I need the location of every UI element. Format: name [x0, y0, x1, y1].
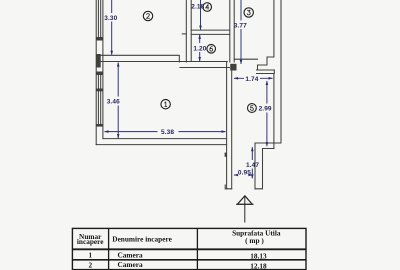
wall divider rooms 4/6 lower line — [191, 33, 230, 35]
arrowhead 2.18 down — [199, 26, 202, 31]
svg-text:Denumire incapere: Denumire incapere — [112, 235, 172, 244]
wall room 1 right inner line — [226, 62, 228, 189]
svg-text:1.47: 1.47 — [246, 162, 259, 169]
arrowhead 3.46 down — [117, 134, 120, 139]
arrowhead 2.99 up — [266, 81, 269, 86]
dimension 2.99 line — [266, 81, 268, 146]
wall pier below room 3 — [230, 64, 236, 71]
dimension 3.77 line — [240, 0, 242, 64]
wall rooms 4/6 right outer line — [233, 0, 235, 62]
wall between room 2 and room 1 lower line — [101, 61, 228, 63]
wall room 1 bottom inner line — [103, 138, 227, 140]
arrowhead 3.46 up — [117, 62, 120, 67]
dimension 2.18 line — [200, 0, 202, 30]
wall between room 2 and room 1 upper line — [101, 55, 180, 62]
wall pier above small window — [96, 72, 103, 76]
svg-text:1: 1 — [88, 251, 92, 260]
room number 5 — [250, 106, 253, 111]
room number 1 — [165, 102, 167, 107]
wall room 5 ledge upper line — [257, 69, 275, 71]
north arrow base flares — [236, 203, 253, 205]
wall pier below lower window — [96, 124, 103, 127]
dimension 1.20 line — [199, 35, 201, 61]
svg-text:3.46: 3.46 — [107, 99, 120, 106]
table header separator — [72, 248, 306, 250]
wall entrance right inner line — [263, 149, 274, 185]
svg-text:12.18: 12.18 — [250, 261, 267, 270]
wall pier below upper window — [96, 37, 103, 41]
dimension 3.30 line — [111, 0, 113, 55]
svg-text:18.13: 18.13 — [250, 251, 267, 260]
wire left outer wall line — [95, 0, 97, 145]
room number 3 — [247, 10, 250, 15]
wall room 5 ledge lower line — [257, 70, 275, 74]
window left wall upper (room 2) hatch — [98, 0, 100, 37]
arrowhead 3.30 down — [110, 51, 113, 56]
wall room 3 / room 5 step — [258, 0, 274, 70]
arrowhead 1.74 right — [269, 77, 274, 80]
svg-text:Camera: Camera — [118, 250, 143, 259]
arrowhead 1.20 down — [198, 57, 201, 62]
arrowhead 5.38 left — [104, 130, 109, 133]
wall right outer line — [255, 0, 281, 189]
window left wall lower (room 1) hatch — [98, 91, 100, 124]
dimension 3.46 line — [117, 63, 119, 139]
dimension 1.74 line — [234, 77, 273, 79]
table row separator — [72, 259, 306, 261]
svg-text:0.95: 0.95 — [238, 170, 251, 177]
svg-text:2: 2 — [88, 260, 92, 269]
wall room 3 bottom line — [234, 58, 257, 60]
wall hall floor outer line — [180, 67, 230, 69]
table column separator 2 — [196, 228, 198, 269]
arrowhead 1.47 down — [251, 174, 254, 179]
wall entrance left end cap — [225, 185, 232, 189]
arrowhead 5.38 right — [222, 130, 227, 133]
svg-text:( mp ): ( mp ) — [245, 236, 264, 245]
arrowhead 1.47 up — [251, 147, 254, 152]
dimension 1.47 line — [251, 147, 253, 178]
arrowhead 1.20 up — [198, 34, 201, 39]
room label circle 3 — [244, 8, 253, 17]
wall pier on entrance left wall — [225, 153, 227, 157]
wire left inner wall line — [102, 0, 104, 139]
table outer border — [72, 228, 306, 269]
wall divider rooms 4/6 upper line — [191, 29, 230, 31]
wall room 5 right inner line — [273, 74, 275, 149]
arrowhead 0.95 right — [248, 174, 253, 177]
wall rooms 4/6 right inner line — [229, 0, 231, 62]
dimensions — [105, 0, 273, 178]
wall divider left tick — [182, 33, 186, 35]
north arrow stem — [244, 197, 246, 223]
room number 4 — [206, 5, 209, 10]
dimension 0.95 line — [234, 174, 253, 176]
wall pier between windows — [96, 89, 103, 92]
svg-text:Camera: Camera — [118, 260, 143, 269]
table — [72, 228, 306, 269]
room label circle 5 — [248, 104, 257, 113]
room label circle 2 — [143, 11, 152, 20]
room label circle 4 — [203, 3, 212, 12]
room number 2 — [147, 14, 150, 19]
north arrow — [236, 196, 253, 223]
svg-text:5.38: 5.38 — [161, 129, 174, 136]
wall rooms 4/6 left inner line — [190, 0, 192, 62]
svg-text:1.74: 1.74 — [245, 76, 258, 83]
svg-text:incapere: incapere — [77, 237, 104, 246]
wall pier at junction with room divider — [96, 54, 101, 68]
arrowhead 2.99 down — [266, 142, 269, 147]
room number circles — [143, 3, 256, 113]
wall entrance right end cap — [255, 185, 263, 189]
wall room 1 right outer line — [231, 68, 233, 189]
room number 6 — [210, 47, 213, 52]
room label circle 6 — [207, 45, 216, 54]
svg-text:2.99: 2.99 — [259, 106, 272, 113]
svg-text:1.20: 1.20 — [193, 46, 206, 53]
window left wall small (room 1) hatch — [98, 75, 100, 89]
arrowhead 0.95 left — [234, 174, 239, 177]
arrowhead 3.77 down — [240, 60, 243, 65]
north arrow triangle — [237, 196, 252, 205]
room label circle 1 — [161, 100, 170, 109]
svg-text:3.77: 3.77 — [234, 22, 247, 29]
wall rooms 4/6 left outer line — [185, 0, 187, 62]
dimension 5.38 line — [105, 131, 226, 133]
wall room 1 bottom outer line — [96, 144, 226, 146]
svg-text:3.30: 3.30 — [104, 15, 117, 22]
arrowhead 1.74 left — [234, 77, 239, 80]
table column separator 1 — [108, 228, 110, 269]
